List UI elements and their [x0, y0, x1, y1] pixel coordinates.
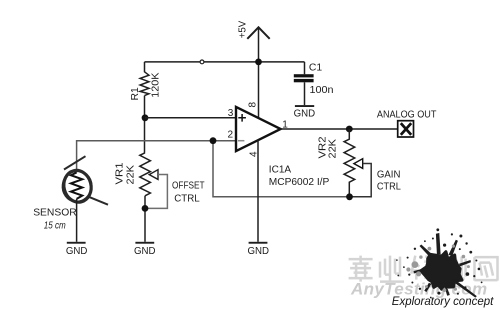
- op-amp U1 triangle: [236, 107, 281, 151]
- op-amp minus symbol: [238, 140, 245, 142]
- sensor stroke tail bottom: [88, 196, 109, 204]
- wire +5V rail: [145, 61, 305, 63]
- op-amp plus symbol: [238, 114, 246, 122]
- watermark char 4: [443, 257, 466, 279]
- svg-text:8: 8: [248, 102, 259, 108]
- sensor LDR hand-drawn ellipse: [61, 156, 108, 205]
- svg-text:120K: 120K: [151, 72, 162, 97]
- watermark char 2: [380, 256, 404, 282]
- svg-text:R1: R1: [130, 87, 141, 101]
- svg-text:22K: 22K: [327, 139, 338, 159]
- svg-text:2: 2: [228, 130, 234, 141]
- wire VR1 bottom to GND: [144, 196, 146, 242]
- svg-text:100n: 100n: [310, 85, 334, 96]
- potentiometer VR1: [140, 153, 151, 196]
- wire +5V stem: [258, 28, 260, 62]
- junction dot rail / +5V: [255, 59, 262, 66]
- junction dot pin3 node: [142, 114, 149, 121]
- wire op-amp output: [281, 128, 398, 130]
- ground symbol op-amp pin 4: [249, 242, 268, 244]
- splat blob bottom bulge: [432, 280, 452, 286]
- net pin2 gray wire (sensor to op-amp inverting input): [77, 141, 236, 173]
- +5V supply arrow symbol: [247, 27, 269, 39]
- svg-text:Exploratory concept: Exploratory concept: [392, 294, 494, 308]
- splat gray satellites: [406, 244, 470, 292]
- svg-text:22K: 22K: [126, 165, 137, 185]
- junction dot VR2 bottom: [346, 193, 353, 200]
- ground symbol sensor: [67, 242, 86, 244]
- node connection circle on rail: [200, 60, 204, 64]
- splat spike right: [459, 260, 471, 267]
- svg-text:IC1A: IC1A: [269, 165, 292, 176]
- splat spike up-left: [420, 245, 432, 256]
- watermark char 5: [475, 257, 498, 281]
- svg-text:OFFSET: OFFSET: [172, 181, 205, 192]
- svg-text:CTRL: CTRL: [174, 194, 200, 205]
- net feedback gray wire: [213, 141, 350, 197]
- svg-text:GND: GND: [134, 246, 156, 257]
- svg-text:GND: GND: [66, 246, 88, 257]
- svg-text:GND: GND: [294, 108, 316, 119]
- VR1 wiper return wire: [147, 175, 167, 209]
- svg-text:ANALOG OUT: ANALOG OUT: [377, 110, 437, 121]
- wire op-amp pin 4 to GND: [257, 140, 259, 242]
- watermark char 3: [411, 256, 435, 280]
- ground symbol VR1: [135, 242, 154, 244]
- VR1 wiper arrow: [149, 170, 158, 180]
- svg-text:3: 3: [228, 108, 234, 119]
- svg-text:C1: C1: [309, 62, 323, 73]
- splat spike down-right streak: [455, 281, 477, 298]
- sensor resistor zigzag: [71, 173, 82, 199]
- svg-text:15 cm: 15 cm: [44, 221, 66, 232]
- splat spike up-right: [449, 240, 458, 257]
- svg-text:MCP6002 I/P: MCP6002 I/P: [269, 177, 330, 188]
- VR2 wiper arrow: [354, 159, 363, 169]
- svg-text:SENSOR: SENSOR: [33, 208, 77, 219]
- splat spike down: [444, 286, 450, 296]
- svg-text:CTRL: CTRL: [377, 181, 401, 192]
- wire rail to op-amp pin 8: [258, 62, 260, 119]
- junction dot pin2/feedback: [210, 137, 217, 144]
- junction dot output/VR2: [346, 126, 353, 133]
- wire to op-amp pin 3: [145, 117, 236, 119]
- svg-text:GND: GND: [248, 246, 270, 257]
- svg-text:VR1: VR1: [115, 162, 126, 184]
- svg-text:GAIN: GAIN: [377, 169, 401, 180]
- analog out terminal X box: [398, 121, 414, 137]
- splat spike up: [436, 233, 441, 254]
- ground symbol C1: [295, 105, 314, 107]
- ink splat logo: [396, 228, 482, 298]
- svg-text:+5V: +5V: [238, 21, 249, 39]
- sensor stroke tail top: [64, 156, 86, 169]
- watermark chinese characters (stylized): [349, 256, 498, 282]
- splat spike down-left: [424, 283, 431, 292]
- wire R1 to VR1: [144, 96, 146, 153]
- splat spike left: [414, 269, 424, 274]
- junction dot VR1 wiper/bottom: [142, 205, 149, 212]
- watermark char 1: [349, 256, 373, 282]
- VR2 wiper return wire: [352, 164, 371, 197]
- potentiometer VR2: [344, 129, 355, 197]
- wire sensor to GND: [76, 199, 78, 242]
- resistor R1: [140, 62, 149, 96]
- capacitor C1: [304, 62, 306, 74]
